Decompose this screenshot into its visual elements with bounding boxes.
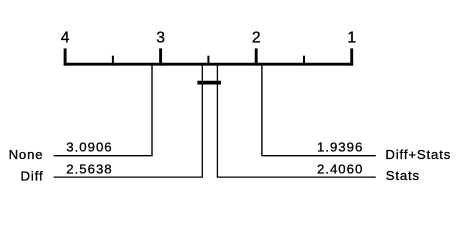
- minor tick 1.5: [303, 56, 305, 66]
- svg-text:None: None: [9, 147, 44, 162]
- svg-text:2.4060: 2.4060: [317, 161, 363, 176]
- connector Diff: [54, 65, 203, 177]
- svg-text:1: 1: [347, 30, 356, 47]
- major tick rank 3: [159, 48, 162, 65]
- svg-text:2: 2: [252, 30, 261, 47]
- minor tick 2.5: [207, 56, 209, 66]
- major tick rank 4: [64, 48, 67, 65]
- svg-text:1.9396: 1.9396: [317, 140, 363, 155]
- svg-text:3: 3: [156, 30, 165, 47]
- axis line: [64, 63, 353, 66]
- svg-text:Stats: Stats: [386, 168, 420, 183]
- svg-text:3.0906: 3.0906: [66, 140, 112, 155]
- connector None: [54, 65, 153, 156]
- crit difference clique bar: [197, 81, 221, 85]
- major tick rank 2: [255, 48, 258, 65]
- connector Stats: [217, 65, 375, 177]
- minor tick 3.5: [112, 56, 114, 66]
- svg-text:4: 4: [61, 30, 70, 47]
- svg-text:2.5638: 2.5638: [66, 161, 112, 176]
- svg-text:Diff: Diff: [21, 169, 44, 184]
- major tick rank 1: [350, 48, 353, 65]
- svg-text:Diff+Stats: Diff+Stats: [385, 147, 451, 162]
- connector Diff+Stats: [262, 65, 376, 156]
